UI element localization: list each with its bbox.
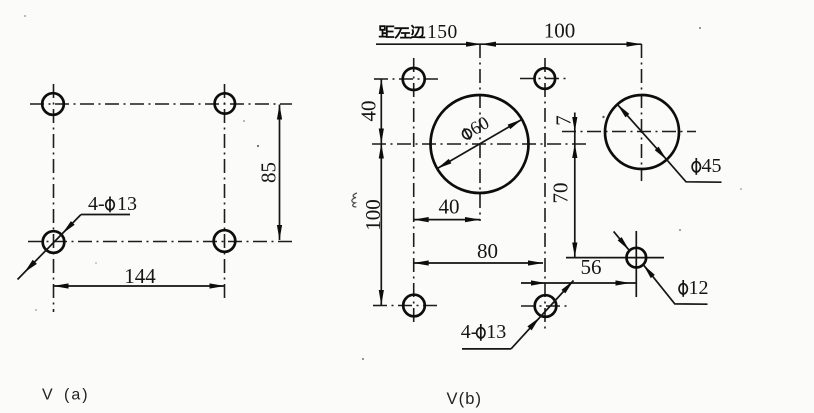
view (b): row centerline phi60 xyxy=(372,143,587,145)
view (a): hole bottom-left xyxy=(43,231,65,253)
phi60 diameter arrow xyxy=(437,119,522,168)
view (b): hole bottom-left xyxy=(403,295,425,317)
dimension 40 left line xyxy=(380,79,382,144)
leader 4-phi13 (a) arrow segment xyxy=(62,215,81,234)
view (a): right column centerline xyxy=(224,84,226,302)
scan squiggle artifact xyxy=(352,193,357,207)
view (a): top row centerline xyxy=(30,103,292,105)
leader 4-phi13 (a) through line xyxy=(18,234,63,280)
leader 4-phi13 (b) diagonal xyxy=(511,281,574,349)
dimension 40 horizontal line xyxy=(414,219,480,221)
phi45 leader tail xyxy=(667,160,722,183)
view (a): left column centerline xyxy=(53,84,55,312)
dimension 56 line xyxy=(521,282,636,284)
svg-text:4-: 4- xyxy=(88,193,105,215)
view (b): hole phi12 xyxy=(627,248,647,268)
leader 4-phi13 (b) underline xyxy=(462,348,511,350)
dimension 56 left arrowhead xyxy=(531,280,546,285)
view (b): column centerline left holes xyxy=(413,58,415,323)
scan specks xyxy=(257,145,259,147)
dimension 144 line xyxy=(54,285,225,287)
svg-text:(a): (a) xyxy=(64,387,90,404)
svg-text:12: 12 xyxy=(689,277,709,299)
leader 4-phi13 (a) outer arrowhead xyxy=(25,260,37,273)
view (b): hole bottom-middle xyxy=(535,295,557,317)
dimension 7 lower arrowhead xyxy=(572,144,577,159)
view (b): row centerline bottom-left hole xyxy=(373,305,441,307)
hanzi bian xyxy=(411,26,425,38)
dimension 100 left line xyxy=(380,144,382,306)
view (b): hole top-left xyxy=(403,68,425,90)
phi60 label xyxy=(458,113,493,145)
svg-text:144: 144 xyxy=(124,264,156,288)
phi45 diameter arrow xyxy=(617,104,666,159)
view (b): column centerline middle holes xyxy=(544,58,546,331)
hanzi ju xyxy=(380,26,394,37)
phi12 leader upper segment xyxy=(614,231,630,250)
svg-text:V(b): V(b) xyxy=(447,390,483,408)
dimension 100 top line xyxy=(481,43,642,45)
view (b): row centerline phi12 xyxy=(566,257,664,259)
phi12 leader lower tail xyxy=(643,265,707,304)
view (a): hole top-left xyxy=(42,93,64,115)
dimension 70 bottom arrowhead xyxy=(572,243,577,258)
label phi glyph (a) xyxy=(106,197,115,213)
leader 4-phi13 (b) circle-edge arrowhead xyxy=(527,318,539,331)
svg-text:70: 70 xyxy=(549,183,573,204)
dimension 7 and 70 shared line xyxy=(574,113,576,258)
svg-text:56: 56 xyxy=(581,255,602,279)
phi45 label phi glyph xyxy=(692,158,700,175)
svg-text:85: 85 xyxy=(257,162,281,183)
hanzi zuo xyxy=(395,28,409,37)
view (b): circle phi45 xyxy=(605,95,679,169)
leader 4-phi13 (a) underline xyxy=(81,214,130,216)
svg-text:V: V xyxy=(42,387,53,404)
dimension 7 upper arrowhead xyxy=(572,117,577,132)
svg-text:100: 100 xyxy=(544,19,576,43)
svg-text:40: 40 xyxy=(439,195,460,219)
view (b): row centerline bottom-middle hole xyxy=(521,305,569,307)
view (b): column centerline phi45 xyxy=(641,44,643,181)
view (a): hole top-right xyxy=(215,93,235,113)
view (b): row centerline phi45 xyxy=(562,131,696,133)
view (b): column centerline phi12 xyxy=(635,231,637,297)
view (a): hole bottom-right xyxy=(214,230,236,252)
svg-text:13: 13 xyxy=(486,321,506,343)
dimension 85 line xyxy=(279,105,281,241)
view (b): circle phi60 xyxy=(431,95,529,193)
svg-text:40: 40 xyxy=(357,101,381,122)
view (a): bottom row centerline xyxy=(28,241,292,243)
dimension 80 line xyxy=(414,262,543,264)
dimension 150 line xyxy=(376,43,481,45)
svg-text:13: 13 xyxy=(117,193,137,215)
view (b): row centerline top-middle hole xyxy=(520,78,569,80)
svg-text:150: 150 xyxy=(427,22,458,43)
svg-text:100: 100 xyxy=(361,199,385,231)
view (b): column centerline phi60 xyxy=(479,44,481,221)
svg-text:45: 45 xyxy=(702,155,722,177)
dimension 56 right arrowhead xyxy=(616,280,631,285)
label phi glyph (b) xyxy=(477,324,485,341)
view (b): row centerline top-left hole xyxy=(374,78,441,80)
svg-text:80: 80 xyxy=(477,239,498,263)
svg-text:4-: 4- xyxy=(461,321,478,343)
view (b): hole top-middle xyxy=(535,68,556,89)
phi12 label phi glyph xyxy=(679,280,687,297)
svg-text:7: 7 xyxy=(552,115,576,126)
